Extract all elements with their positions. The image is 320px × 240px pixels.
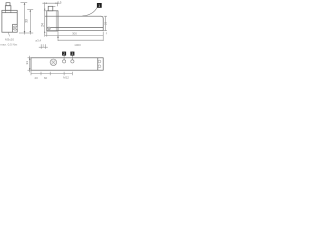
svg-text:max. 0,5 Nm: max. 0,5 Nm bbox=[0, 43, 18, 47]
svg-text:2,5: 2,5 bbox=[57, 1, 62, 5]
svg-text:M12: M12 bbox=[63, 76, 69, 80]
svg-text:R: R bbox=[106, 32, 107, 36]
svg-text:24: 24 bbox=[41, 23, 45, 27]
svg-text:1000: 1000 bbox=[74, 43, 81, 47]
svg-text:300: 300 bbox=[72, 32, 77, 36]
svg-text:23: 23 bbox=[104, 22, 107, 26]
svg-text:33: 33 bbox=[25, 61, 29, 65]
svg-text:33: 33 bbox=[25, 19, 29, 23]
svg-text:60: 60 bbox=[44, 76, 48, 80]
svg-text:2: 2 bbox=[63, 52, 65, 56]
svg-text:M3x20: M3x20 bbox=[5, 38, 14, 42]
svg-text:3: 3 bbox=[72, 52, 74, 56]
svg-text:20: 20 bbox=[35, 76, 39, 80]
svg-text:⌀3,4: ⌀3,4 bbox=[35, 39, 41, 43]
svg-text:1: 1 bbox=[98, 4, 100, 8]
